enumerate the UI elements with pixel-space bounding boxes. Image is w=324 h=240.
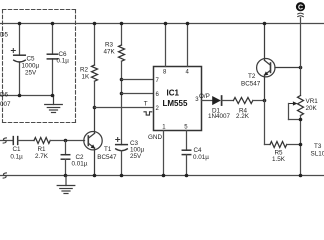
wire pin6 [122, 93, 154, 95]
ground (main) [57, 176, 75, 194]
svg-text:0.01µ: 0.01µ [193, 154, 209, 161]
resistor R5 [270, 142, 287, 148]
wire pin1 [163, 131, 165, 176]
svg-text:BC547: BC547 [241, 81, 261, 88]
capacitor C6 [47, 24, 57, 96]
wire pin5 / capacitor C4 [182, 131, 190, 176]
svg-text:IC1: IC1 [167, 89, 180, 98]
svg-text:T2: T2 [248, 73, 256, 80]
svg-text:SL100: SL100 [311, 151, 324, 158]
potentiometer VR1 [289, 96, 304, 176]
capacitor C2 [61, 141, 69, 176]
svg-text:1N4007: 1N4007 [208, 113, 231, 120]
node C5 bottom [18, 94, 22, 98]
wire pin3 output [202, 100, 213, 102]
wire top VCC rail [0, 23, 324, 25]
trigger pulse glyph [144, 112, 152, 115]
wire T2 emitter to R5 [264, 101, 266, 145]
wire pin2 [95, 107, 154, 109]
node C2/R1/T1 base [64, 139, 68, 143]
svg-text:R2: R2 [80, 67, 89, 74]
svg-text:T3: T3 [314, 143, 322, 150]
resistor R2 [92, 24, 98, 108]
dashed box (power supply section) [3, 10, 76, 123]
svg-text:25V: 25V [130, 153, 142, 160]
svg-text:1.5K: 1.5K [272, 156, 286, 163]
svg-text:007: 007 [0, 101, 11, 108]
transistor T1 BC547 [84, 108, 102, 176]
node C5 top [18, 22, 22, 26]
svg-text:2.2K: 2.2K [236, 113, 250, 120]
svg-text:1000µ: 1000µ [22, 63, 40, 70]
svg-text:D5: D5 [0, 32, 9, 39]
svg-text:47K: 47K [104, 49, 116, 56]
svg-text:0.01µ: 0.01µ [72, 161, 88, 168]
svg-text:20K: 20K [306, 105, 318, 112]
svg-text:C1: C1 [13, 146, 22, 153]
svg-text:C: C [298, 4, 303, 11]
svg-text:R1: R1 [38, 146, 47, 153]
terminal C [296, 2, 305, 95]
diode D1 1N4007 [212, 96, 233, 105]
op IC1 LM555 box [154, 67, 202, 131]
svg-text:1K: 1K [82, 74, 91, 81]
svg-text:R3: R3 [105, 42, 114, 49]
wire pin4 [187, 24, 189, 67]
svg-text:0.1µ: 0.1µ [57, 58, 70, 65]
resistor R1 [34, 138, 50, 144]
resistor R4 [233, 98, 252, 104]
svg-text:BC547: BC547 [97, 154, 117, 161]
wire C1 input [0, 140, 13, 142]
node D1-R4-T2 emitter [263, 99, 267, 103]
wire pin8 [165, 24, 167, 67]
wire rectifier output inside box [0, 95, 54, 97]
wire bottom ground rail [0, 175, 324, 177]
resistor R3 [119, 24, 125, 145]
ground (power supply) [45, 96, 63, 113]
svg-text:GND: GND [148, 134, 162, 141]
svg-text:C4: C4 [194, 147, 203, 154]
capacitor C1 [13, 137, 34, 145]
svg-text:T1: T1 [104, 146, 112, 153]
svg-text:25V: 25V [25, 70, 37, 77]
svg-text:2.7K: 2.7K [35, 153, 49, 160]
node C6 bottom [51, 94, 55, 98]
svg-text:0.1µ: 0.1µ [10, 154, 23, 161]
svg-text:C5: C5 [27, 56, 36, 63]
svg-text:T: T [144, 101, 148, 108]
break symbol left end of bottom rail [3, 173, 6, 178]
wire pin7 [122, 79, 154, 81]
svg-text:LM555: LM555 [163, 99, 188, 108]
svg-text:O/P: O/P [199, 93, 210, 100]
capacitor C3 [116, 138, 128, 176]
transistor T2 BC547 [257, 24, 301, 101]
capacitor C5 [11, 24, 25, 96]
svg-text:D6: D6 [0, 92, 9, 99]
node C6 top [51, 22, 55, 26]
break symbol left end of C1 wire [3, 138, 6, 143]
